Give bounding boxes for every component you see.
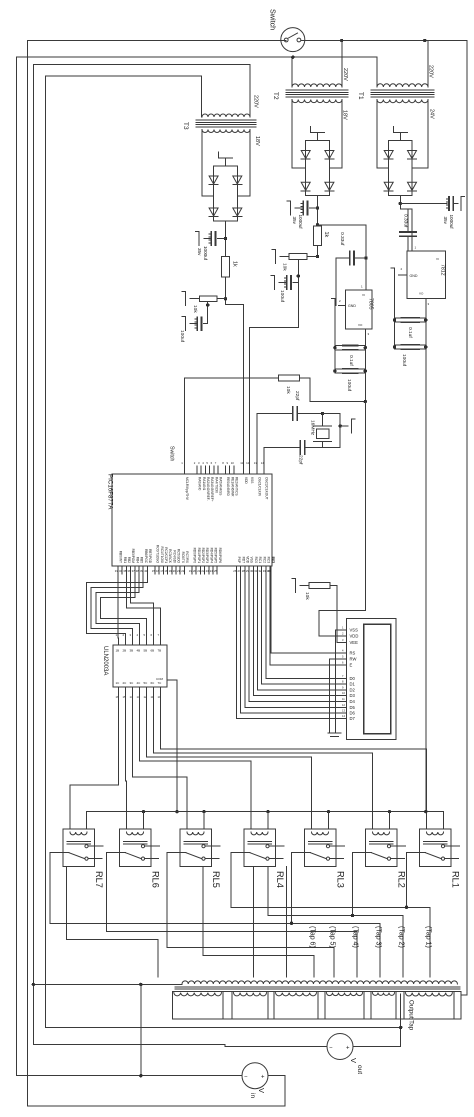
resistor R2 10k (LCD contrast) bbox=[309, 583, 330, 589]
svg-text:RB2: RB2 bbox=[127, 557, 131, 563]
svg-text:VDD: VDD bbox=[246, 556, 250, 563]
svg-text:VDD: VDD bbox=[244, 477, 248, 484]
svg-text:100uf: 100uf bbox=[401, 354, 407, 367]
svg-text:32: 32 bbox=[259, 569, 263, 573]
ground below LCD bbox=[328, 732, 341, 734]
capacitor C11 100uf (T2 sense) bbox=[297, 259, 299, 327]
svg-text:OSC2/CLKOUT: OSC2/CLKOUT bbox=[265, 477, 269, 500]
wire V in plus bbox=[268, 1075, 285, 1077]
diode BR2 (T2) D4 bbox=[325, 182, 334, 190]
capacitor C12 22pf (OSC1) bbox=[292, 407, 294, 420]
bridge BR2 (T2) left column bbox=[305, 141, 307, 196]
capacitor C13 22pf (OSC2) bbox=[299, 441, 301, 454]
svg-text:PIC16F877A: PIC16F877A bbox=[107, 474, 114, 510]
svg-text:100uf: 100uf bbox=[279, 290, 285, 303]
svg-text:RL1: RL1 bbox=[451, 871, 461, 888]
svg-text:RB3/PGM: RB3/PGM bbox=[131, 549, 135, 564]
svg-text:RC2: RC2 bbox=[262, 557, 266, 564]
autotransformer TR1 main winding bbox=[182, 981, 457, 984]
diode BR1 (T1) D3 bbox=[384, 182, 393, 190]
svg-text:39: 39 bbox=[140, 569, 144, 573]
diode BR1 (T1) D4 bbox=[408, 182, 417, 190]
bridge BR1 (T1) bottom rail bbox=[389, 194, 412, 196]
wire V out plus to output tap bbox=[353, 1046, 401, 1048]
svg-text:24V: 24V bbox=[429, 109, 435, 119]
wire +12V relay coil rail bbox=[86, 811, 443, 813]
svg-text:VO: VO bbox=[419, 292, 424, 296]
svg-text:1000uf: 1000uf bbox=[203, 246, 208, 261]
wire T1 secondary right down bbox=[427, 100, 429, 169]
svg-text:35: 35 bbox=[123, 569, 127, 573]
bridge BR3 (T3) ground bbox=[224, 158, 226, 166]
bridge BR3 (T3) left column bbox=[213, 166, 215, 221]
svg-text:5B: 5B bbox=[144, 649, 148, 653]
resistor R4 10k (T2 sense) bbox=[307, 256, 318, 258]
svg-text:RA5/AN4/SS: RA5/AN4/SS bbox=[219, 477, 223, 495]
svg-text:31: 31 bbox=[254, 569, 258, 573]
wire winding left end to neutral bbox=[33, 983, 182, 985]
autotransformer secondary top line bbox=[172, 991, 461, 993]
resistor R6 10k (T3 sense) bbox=[217, 298, 226, 300]
svg-text:20: 20 bbox=[193, 569, 197, 573]
ULN2003A input pins 1B-7B bbox=[118, 638, 120, 645]
svg-text:RC5/SDO: RC5/SDO bbox=[177, 549, 181, 564]
wire T3 primary left terminal bbox=[201, 76, 203, 117]
transformer T2 primary winding bbox=[292, 84, 342, 87]
diode BR2 (T2) D2 bbox=[325, 151, 334, 159]
svg-text:26: 26 bbox=[233, 569, 237, 573]
svg-text:RB5: RB5 bbox=[140, 557, 144, 563]
wire bundle PIC RB port to ULN2003A inputs bbox=[117, 574, 119, 638]
svg-text:RL7: RL7 bbox=[94, 871, 104, 888]
svg-text:RD3/PSP3: RD3/PSP3 bbox=[205, 548, 209, 564]
capacitor C10 100uf (T3 sense) bbox=[207, 302, 209, 324]
svg-text:7B: 7B bbox=[158, 649, 162, 653]
svg-text:−: − bbox=[244, 1075, 248, 1081]
capacitor C4 100uf (7812 output) bbox=[401, 344, 419, 346]
bridge BR1 (T1) right column bbox=[411, 141, 413, 196]
resistor R5 1k (T3) bbox=[222, 257, 230, 278]
svg-text:V: V bbox=[349, 1058, 358, 1063]
svg-text:(Tap 4): (Tap 4) bbox=[352, 926, 359, 948]
wire neutral top run to T1 T2 primaries bbox=[17, 56, 377, 58]
svg-text:RB7/PGD: RB7/PGD bbox=[148, 549, 152, 564]
wire bundle ULN outputs to relay coils bbox=[70, 694, 119, 829]
svg-text:RC5: RC5 bbox=[272, 557, 276, 564]
svg-text:(Tap 6): (Tap 6) bbox=[309, 926, 316, 948]
svg-text:1000uf: 1000uf bbox=[298, 215, 303, 230]
svg-text:22: 22 bbox=[201, 569, 205, 573]
svg-text:19: 19 bbox=[189, 569, 193, 573]
wire OSC1 from PIC pin13 bbox=[256, 414, 258, 467]
crystal X1 16MHz bbox=[322, 414, 324, 427]
wire T2 secondary left down bbox=[291, 100, 293, 169]
svg-text:VI: VI bbox=[436, 257, 439, 261]
transformer T3 core bbox=[196, 119, 256, 121]
svg-text:D2: D2 bbox=[350, 688, 356, 693]
svg-text:out: out bbox=[356, 1065, 363, 1074]
wire tap line 6 (Tap6) bbox=[203, 867, 314, 978]
wire output tap bottom run bbox=[46, 1026, 401, 1028]
autotransformer secondary bottom line bbox=[172, 1018, 461, 1020]
PIC right-side pins group RB (bottom edge) bbox=[117, 566, 119, 574]
svg-text:12: 12 bbox=[246, 461, 250, 465]
bridge BR1 (T1) top rail bbox=[389, 140, 412, 142]
svg-text:RA3/AN3/VREF+: RA3/AN3/VREF+ bbox=[210, 477, 214, 502]
svg-text:RE0/AN5/RD: RE0/AN5/RD bbox=[226, 477, 230, 496]
svg-text:Switch: Switch bbox=[169, 446, 175, 461]
wire T1 primary left terminal bbox=[376, 57, 378, 87]
svg-text:28: 28 bbox=[242, 569, 246, 573]
diode BR1 (T1) D2 bbox=[408, 151, 417, 159]
svg-text:Switch: Switch bbox=[269, 9, 278, 30]
svg-text:10: 10 bbox=[231, 461, 235, 465]
wire +5V to MCLR resistor bbox=[310, 378, 365, 402]
wire live rail left (switch feed) bbox=[26, 41, 28, 1106]
svg-text:25: 25 bbox=[214, 569, 218, 573]
wire output tap bbox=[400, 994, 402, 1047]
wire +5V down to LCD bbox=[364, 402, 366, 611]
svg-text:RD2/PSP2: RD2/PSP2 bbox=[201, 548, 205, 564]
7812 ground pin bbox=[399, 274, 408, 276]
wire crystal right loop bbox=[323, 414, 341, 448]
svg-text:T2: T2 bbox=[272, 92, 279, 100]
svg-text:−: − bbox=[329, 1046, 333, 1052]
7805 ground pin bbox=[339, 305, 346, 307]
svg-text:RC0: RC0 bbox=[254, 557, 258, 564]
relay RL1 bbox=[420, 829, 452, 867]
svg-text:7812: 7812 bbox=[440, 264, 446, 276]
LCD pins bbox=[341, 629, 347, 631]
svg-text:MCLR/Vpp/THV: MCLR/Vpp/THV bbox=[185, 477, 189, 501]
bridge BR3 (T3) top rail bbox=[214, 165, 238, 167]
wire BR1 to 7812 input bbox=[400, 209, 412, 251]
diode BR3 (T3) D2 bbox=[233, 176, 242, 184]
svg-text:(Tap 3): (Tap 3) bbox=[375, 926, 382, 948]
svg-text:35v: 35v bbox=[197, 248, 202, 256]
capacitor C1 1000uf 35v (T1) bbox=[400, 203, 447, 205]
svg-text:RE1/AN6/WR: RE1/AN6/WR bbox=[230, 477, 234, 497]
svg-text:GND: GND bbox=[410, 274, 418, 278]
wire neutral to V in minus bbox=[17, 1075, 242, 1077]
wire relay riser A to winding bbox=[253, 867, 255, 978]
wire tap line 4 (RL6 common to Tap4) bbox=[107, 853, 358, 977]
svg-text:2B: 2B bbox=[123, 649, 127, 653]
wire live top to switch bbox=[27, 40, 286, 42]
wire T2 secondary right down bbox=[341, 100, 343, 169]
microcontroller U1 PIC16F877A bbox=[112, 474, 272, 566]
ground rail left of 7805 bbox=[334, 313, 336, 371]
svg-text:40: 40 bbox=[144, 569, 148, 573]
svg-text:10k: 10k bbox=[192, 305, 198, 313]
svg-text:D1: D1 bbox=[350, 682, 356, 687]
wire BR3 output bbox=[225, 221, 227, 257]
wire neutral drop to V in line bbox=[140, 984, 142, 1075]
transformer T1 core bbox=[371, 89, 434, 91]
svg-text:35: 35 bbox=[268, 569, 272, 573]
svg-text:16MHz: 16MHz bbox=[310, 420, 316, 436]
wire 7812 output (+12V) bbox=[425, 299, 427, 812]
svg-text:17: 17 bbox=[160, 569, 164, 573]
PIC left-side pins (top edge) bbox=[184, 466, 186, 474]
svg-text:VO: VO bbox=[358, 323, 363, 327]
svg-text:18V: 18V bbox=[254, 136, 260, 146]
svg-text:D5: D5 bbox=[350, 705, 356, 710]
wire T3 sense to PIC RA0 bbox=[226, 305, 244, 466]
regulator U3 7805 bbox=[346, 290, 373, 329]
diode BR2 (T2) D3 bbox=[301, 182, 310, 190]
display LCD1 LM016L bbox=[347, 618, 397, 739]
bridge BR3 (T3) right column bbox=[236, 166, 238, 221]
svg-text:D3: D3 bbox=[350, 693, 356, 698]
relay RL4 bbox=[244, 829, 276, 867]
svg-text:100uf: 100uf bbox=[179, 330, 185, 343]
svg-text:E: E bbox=[350, 663, 353, 668]
transformer T3 secondary winding bbox=[202, 130, 250, 133]
svg-text:RD5/PSP5: RD5/PSP5 bbox=[214, 548, 218, 564]
svg-text:0.33uf: 0.33uf bbox=[339, 232, 345, 246]
relay RL7 bbox=[63, 829, 95, 867]
svg-text:1B: 1B bbox=[116, 649, 120, 653]
wire RL1 common drop bbox=[406, 853, 408, 908]
wire T1 primary right terminal bbox=[427, 41, 429, 88]
wire T2 primary left terminal bbox=[291, 57, 293, 87]
relay RL2 bbox=[366, 829, 398, 867]
bridge BR2 (T2) bottom rail bbox=[306, 194, 330, 196]
bridge BR2 (T2) right column bbox=[328, 141, 330, 196]
PIC right-side pins group RC (bottom edge) bbox=[154, 566, 156, 574]
svg-text:4B: 4B bbox=[137, 649, 141, 653]
wire output-sense to T3 primary left bbox=[46, 75, 202, 77]
svg-text:18: 18 bbox=[164, 569, 168, 573]
svg-text:10k: 10k bbox=[285, 386, 291, 394]
capacitor C7 1000uf 35v (T3) bbox=[218, 238, 226, 240]
PIC right-side pins group RD/RC to LCD (bottom edge) bbox=[236, 566, 238, 574]
svg-text:RC1: RC1 bbox=[258, 557, 262, 564]
relay RL3 bbox=[305, 829, 337, 867]
node T2 sense bbox=[316, 255, 319, 258]
bridge BR1 (T1) ground bbox=[399, 133, 401, 141]
diode BR3 (T3) D4 bbox=[233, 208, 242, 216]
relay RL5 bbox=[180, 829, 212, 867]
svg-text:VDD: VDD bbox=[350, 634, 359, 639]
wire OSC2 from PIC pin14 bbox=[263, 448, 265, 467]
wire winding jumper line bbox=[67, 867, 159, 978]
wire T3 primary right terminal bbox=[249, 64, 251, 117]
svg-text:34: 34 bbox=[119, 569, 123, 573]
svg-text:RC2/CCP1: RC2/CCP1 bbox=[164, 547, 168, 563]
svg-text:22pf: 22pf bbox=[294, 391, 300, 401]
svg-text:14: 14 bbox=[261, 461, 265, 465]
svg-text:21: 21 bbox=[177, 569, 181, 573]
diode BR3 (T3) D3 bbox=[209, 208, 218, 216]
svg-text:D7: D7 bbox=[350, 716, 356, 721]
svg-text:11: 11 bbox=[240, 461, 243, 465]
svg-text:+: + bbox=[346, 1046, 350, 1052]
svg-text:OSC1/CLKIN: OSC1/CLKIN bbox=[258, 477, 262, 497]
svg-text:RA0/AN0: RA0/AN0 bbox=[198, 477, 202, 491]
svg-text:1k: 1k bbox=[323, 232, 329, 238]
wire winding-common to T3 primary right bbox=[33, 63, 250, 65]
svg-text:RC3/SCK: RC3/SCK bbox=[168, 549, 172, 564]
resistor R3 1k (T2) bbox=[314, 226, 322, 246]
svg-text:RL5: RL5 bbox=[211, 871, 221, 888]
svg-text:7805: 7805 bbox=[368, 298, 374, 310]
svg-text:100uf: 100uf bbox=[346, 379, 352, 392]
svg-text:24: 24 bbox=[210, 569, 214, 573]
wire neutral rail left bbox=[16, 57, 18, 1075]
svg-text:35v: 35v bbox=[443, 217, 448, 225]
wire T2 sense to PIC RA1 bbox=[249, 328, 298, 466]
svg-text:D4: D4 bbox=[350, 699, 356, 704]
svg-text:RL2: RL2 bbox=[397, 871, 407, 888]
svg-text:RA2/AN2/VREF-: RA2/AN2/VREF- bbox=[206, 477, 210, 501]
bridge BR2 (T2) top rail bbox=[306, 140, 330, 142]
svg-text:in: in bbox=[249, 1093, 256, 1098]
svg-text:6B: 6B bbox=[151, 649, 155, 653]
wire tap line 3 (RL7 common to Tap3) bbox=[50, 853, 380, 977]
capacitor C5 1000uf 35v (T2) bbox=[310, 207, 318, 209]
svg-text:33: 33 bbox=[115, 569, 119, 573]
svg-text:10k: 10k bbox=[282, 263, 288, 271]
svg-text:23: 23 bbox=[206, 569, 210, 573]
svg-text:D0: D0 bbox=[350, 676, 356, 681]
svg-text:35v: 35v bbox=[292, 217, 297, 225]
transformer T2 secondary winding bbox=[292, 100, 342, 103]
svg-text:RL3: RL3 bbox=[336, 871, 346, 888]
svg-text:21: 21 bbox=[197, 569, 201, 573]
wire BR1 output bbox=[399, 195, 401, 209]
bridge BR3 (T3) bottom rail bbox=[214, 220, 238, 222]
svg-text:19: 19 bbox=[169, 569, 173, 573]
transformer T3 primary winding bbox=[202, 114, 250, 117]
svg-text:VEE: VEE bbox=[350, 640, 359, 645]
svg-text:RL6: RL6 bbox=[151, 871, 161, 888]
svg-text:RC7/RX: RC7/RX bbox=[185, 551, 189, 564]
diode BR1 (T1) D1 bbox=[384, 151, 393, 159]
wire RL3 common drop bbox=[291, 853, 293, 924]
diode BR3 (T3) D1 bbox=[209, 176, 218, 184]
capacitor C3 0.1uf (7812 output) bbox=[401, 317, 419, 319]
svg-text:RD0/PSP0: RD0/PSP0 bbox=[193, 548, 197, 564]
capacitor C8 0.1uf (7805 output) bbox=[343, 345, 358, 347]
svg-text:0.1uf: 0.1uf bbox=[348, 355, 354, 366]
wire T3 secondary right down bbox=[249, 130, 251, 197]
svg-text:+: + bbox=[261, 1075, 265, 1081]
svg-text:38: 38 bbox=[136, 569, 140, 573]
svg-text:RD1/PSP1: RD1/PSP1 bbox=[197, 548, 201, 564]
wire tap line 2 (Tap2) bbox=[268, 867, 403, 978]
svg-text:RB6/PGC: RB6/PGC bbox=[144, 549, 148, 564]
svg-text:RW: RW bbox=[350, 656, 357, 661]
wire BR2 node to 7805 input bbox=[318, 225, 367, 290]
source V in bbox=[242, 1063, 268, 1089]
switch SW1 bbox=[281, 28, 305, 52]
svg-text:(Tap 2): (Tap 2) bbox=[398, 926, 405, 948]
wire 7805 output (+5V) bbox=[364, 329, 366, 401]
ground rail right of 7812 bbox=[394, 282, 396, 347]
relay RL6 bbox=[120, 829, 152, 867]
svg-text:V: V bbox=[257, 1088, 266, 1093]
svg-text:20: 20 bbox=[173, 569, 177, 573]
transformer T1 primary winding bbox=[377, 84, 428, 87]
resistor R1 10k (MCLR pullup) bbox=[185, 377, 279, 379]
svg-text:13: 13 bbox=[254, 461, 258, 465]
svg-text:VSS: VSS bbox=[250, 557, 254, 563]
svg-text:37: 37 bbox=[132, 569, 136, 573]
wire tap line 5 (RL5 common to Tap5) bbox=[167, 853, 334, 977]
svg-text:RC4/SDI: RC4/SDI bbox=[172, 550, 176, 563]
wire V out minus run bbox=[225, 1046, 327, 1048]
wire 0.33uf to ground bbox=[335, 258, 337, 306]
svg-text:RA4/T0CKI: RA4/T0CKI bbox=[214, 477, 218, 493]
wire tap line 1 (RL4 common to Tap1) bbox=[231, 853, 430, 977]
svg-text:1000uf: 1000uf bbox=[449, 215, 454, 230]
wire MCLR to PIC pin1 bbox=[184, 378, 186, 466]
capacitor C2 0.33uf (7812 input) bbox=[400, 231, 416, 233]
svg-text:COM: COM bbox=[156, 677, 164, 681]
ground at crystal bbox=[340, 425, 348, 427]
svg-text:33: 33 bbox=[263, 569, 267, 573]
ULN2003A output pins 1C-7C bbox=[118, 687, 120, 694]
node T3 sense bbox=[224, 297, 227, 300]
svg-text:16: 16 bbox=[156, 569, 160, 573]
svg-text:1k: 1k bbox=[232, 261, 238, 267]
diode BR2 (T2) D1 bbox=[301, 151, 310, 159]
svg-text:VI: VI bbox=[362, 293, 365, 297]
svg-text:RB1: RB1 bbox=[123, 557, 127, 563]
wire switched live to transformers and right border bbox=[301, 40, 467, 42]
svg-text:3B: 3B bbox=[130, 649, 134, 653]
capacitor C9 100uf (7805 output) bbox=[343, 368, 358, 370]
wire BR2 output bbox=[317, 195, 319, 226]
wire live right border down to winding bbox=[466, 41, 468, 996]
svg-text:30: 30 bbox=[250, 569, 254, 573]
svg-text:(Tap 5): (Tap 5) bbox=[329, 926, 336, 948]
wire LCD VEE to contrast resistor bbox=[330, 586, 341, 643]
wire LCD VSS to ground bbox=[336, 630, 341, 733]
svg-text:RB4: RB4 bbox=[135, 557, 139, 563]
svg-text:RD6/PSP6: RD6/PSP6 bbox=[218, 548, 222, 564]
capacitor C6 0.33uf (7805 input) bbox=[336, 257, 349, 259]
bridge BR1 (T1) left column bbox=[388, 141, 390, 196]
svg-text:RC3: RC3 bbox=[267, 557, 271, 564]
transformer T2 core bbox=[286, 89, 348, 91]
bridge BR2 (T2) ground bbox=[317, 133, 319, 141]
svg-text:220V: 220V bbox=[342, 68, 348, 81]
wire T3 secondary left down bbox=[201, 130, 203, 197]
wire winding-common rail bbox=[32, 64, 34, 1044]
svg-text:RE2/AN7/CS: RE2/AN7/CS bbox=[235, 477, 239, 496]
driver U4 ULN2003A bbox=[113, 645, 167, 687]
wire +12V drops to relay coils bbox=[85, 812, 87, 829]
svg-text:22: 22 bbox=[181, 569, 185, 573]
svg-text:PSP: PSP bbox=[237, 557, 241, 563]
svg-text:36: 36 bbox=[127, 569, 131, 573]
svg-text:27: 27 bbox=[238, 569, 242, 573]
wire bundle PIC to LCD data/control bbox=[237, 574, 342, 719]
svg-text:RB0/INT: RB0/INT bbox=[119, 551, 123, 563]
svg-text:T1: T1 bbox=[357, 92, 364, 100]
svg-text:D6: D6 bbox=[350, 711, 356, 716]
svg-text:(Tap 1): (Tap 1) bbox=[425, 926, 432, 948]
svg-text:RA1/AN1: RA1/AN1 bbox=[202, 477, 206, 491]
svg-text:10k: 10k bbox=[304, 592, 310, 600]
svg-text:GND: GND bbox=[348, 304, 356, 308]
autotransformer secondary coil segments bbox=[174, 993, 222, 996]
wire LCD RW to ground bbox=[330, 659, 342, 733]
wire LCD VDD to +5V bbox=[319, 611, 365, 637]
